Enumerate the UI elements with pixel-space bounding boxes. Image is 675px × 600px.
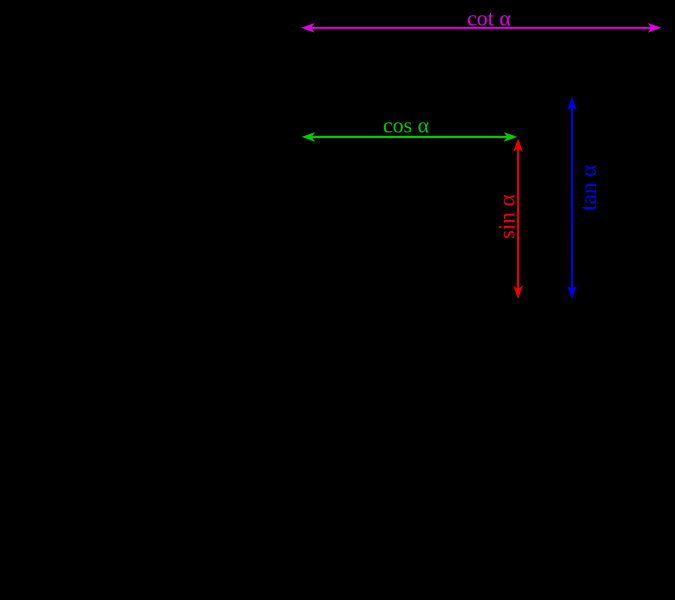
svg-text:cos α: cos α [383, 112, 430, 137]
svg-text:sin α: sin α [494, 194, 519, 239]
tan arrow (blue vertical double arrow along x=1 tangent line) [567, 97, 577, 300]
sin label "sin α" (rotated 90° CCW) [494, 194, 519, 239]
tan label "tan α" (rotated 90° CCW) [576, 165, 601, 211]
sin arrow (red vertical double arrow) [513, 138, 523, 299]
cot arrow (magenta horizontal double arrow along y=1 tangent line) [301, 23, 661, 33]
cos label "cos α" [383, 112, 430, 137]
cot label "cot α" [467, 6, 511, 31]
cos arrow (green horizontal double arrow) [302, 132, 518, 142]
svg-text:cot α: cot α [467, 6, 511, 31]
svg-text:tan α: tan α [576, 165, 601, 211]
